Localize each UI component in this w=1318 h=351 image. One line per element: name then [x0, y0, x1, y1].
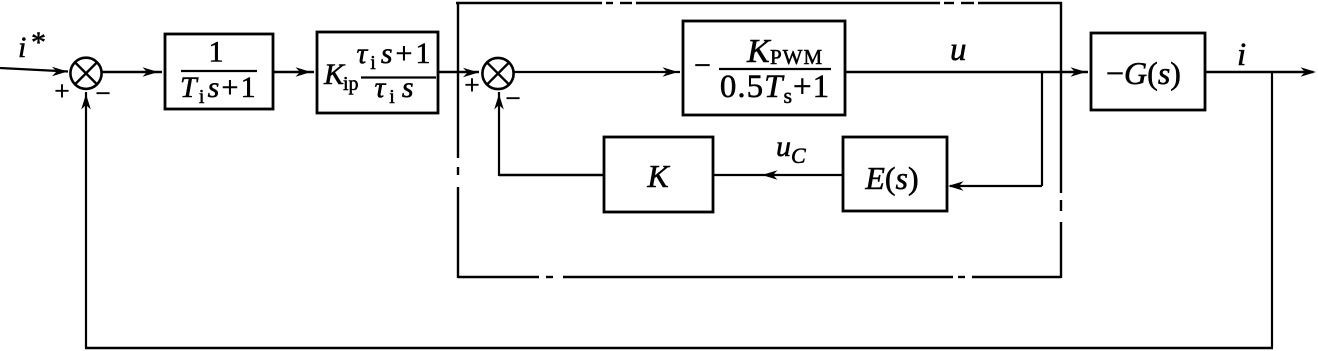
svg-text:u: u [950, 32, 967, 68]
dash-dot boundary: right edge [1060, 2, 1062, 278]
wire: input into summing junction S1 [0, 67, 68, 77]
block K [604, 137, 713, 212]
svg-text:−G(s): −G(s) [1106, 55, 1181, 91]
svg-text:−: − [505, 83, 520, 113]
dash-dot boundary: top edge [456, 2, 1062, 4]
block PWM: -KPWM/(0.5Ts+1) [683, 21, 845, 115]
plus sign at S2 [464, 70, 479, 100]
wire: S1 to block T1 [102, 67, 162, 77]
svg-text:+: + [464, 70, 479, 100]
plus sign at S1 [54, 76, 69, 106]
svg-text:τis+1: τis+1 [357, 37, 434, 74]
block Kip: Kip (tau_i s+1)/(tau_i s) [317, 32, 438, 113]
output label i [1237, 37, 1246, 73]
svg-text:ip: ip [343, 73, 359, 95]
svg-text:Tis+1: Tis+1 [180, 71, 258, 108]
svg-text:u: u [776, 130, 791, 163]
minus sign at S1 [95, 78, 110, 108]
wire: E(s) to K (node uC) [713, 170, 843, 180]
svg-text:1: 1 [209, 36, 224, 69]
node label uC [776, 130, 806, 168]
wire: block T1 to block Kip [273, 67, 314, 77]
svg-text:i: i [18, 31, 26, 64]
svg-text:0.5Ts+1: 0.5Ts+1 [720, 69, 830, 108]
svg-text:K: K [746, 33, 772, 70]
svg-text:+: + [54, 76, 69, 106]
wire: outer feedback from node i down, across bottom, up into S1 (minus input) [81, 72, 1273, 349]
wire: block Kip into summing junction S2 [438, 68, 479, 78]
svg-text:K: K [646, 158, 670, 194]
wire: K up into S2 (minus input) [494, 92, 604, 176]
svg-text:−: − [694, 49, 711, 82]
dash-dot boundary: left edge [457, 2, 459, 278]
dash-dot boundary: bottom edge [458, 276, 1061, 278]
block E: E(s) [843, 137, 947, 211]
wire: block PWM to block G (node u) [845, 67, 1088, 77]
svg-text:E(s): E(s) [864, 160, 918, 196]
wire: inner feedback tap from node u down to E(s) [948, 72, 1042, 191]
svg-text:i: i [1237, 37, 1246, 73]
wire: S2 to block PWM [514, 67, 680, 77]
minus sign at S2 [505, 83, 520, 113]
svg-text:*: * [31, 26, 46, 59]
summing junction S1 [70, 58, 101, 89]
svg-text:PWM: PWM [770, 45, 823, 69]
wire: block G to output (node i) [1205, 67, 1316, 77]
svg-text:C: C [791, 143, 806, 168]
block T1: 1/(Ti s+1) [165, 34, 273, 109]
svg-text:−: − [95, 78, 110, 108]
block G: -G(s) [1091, 33, 1205, 110]
summing junction S2 [482, 58, 513, 89]
input label i* [18, 26, 46, 64]
node label u [950, 32, 967, 68]
